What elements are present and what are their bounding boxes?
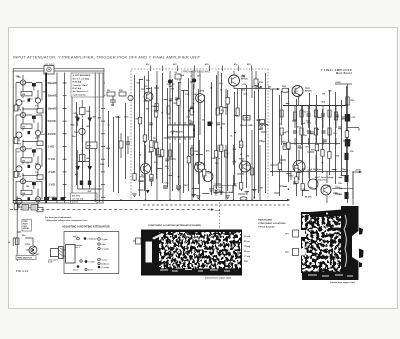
component box B1 <box>22 205 29 211</box>
svg-text:For front panel adjustment: For front panel adjustment <box>45 216 72 219</box>
svg-text:6V8: 6V8 <box>247 64 250 66</box>
diode D7 <box>202 120 212 127</box>
capacitor C18 <box>345 175 349 182</box>
resistor R29 <box>334 112 337 120</box>
wire switch column a <box>56 73 58 204</box>
wire r12 <box>121 133 128 158</box>
svg-text:TR: TR <box>141 175 144 177</box>
svg-text:22n: 22n <box>240 145 244 147</box>
diode Da4 <box>32 182 36 185</box>
svg-text:R2 set: R2 set <box>244 240 250 243</box>
capacitor C13 <box>307 131 311 133</box>
top tick labels <box>146 63 250 66</box>
svg-text:BL239: BL239 <box>305 197 312 199</box>
bus junction rects <box>44 197 65 201</box>
wire main bottom bus <box>13 200 287 202</box>
oval on bus <box>240 197 247 200</box>
svg-text:C1 adj: C1 adj <box>244 236 250 238</box>
trimmer Tb1 <box>37 109 43 114</box>
svg-text:1M: 1M <box>22 94 25 96</box>
svg-text:100n: 100n <box>124 117 130 119</box>
svg-text:Y Final Amplifier: Y Final Amplifier <box>258 225 275 228</box>
junction channel 3 <box>22 175 23 176</box>
wire hv column <box>347 84 349 203</box>
diode Db1 <box>28 99 31 102</box>
resistor R22 <box>246 165 254 175</box>
resistor R27 <box>314 110 317 117</box>
scattered capacitors <box>149 98 345 186</box>
resistor R17b <box>254 71 264 90</box>
transistor TRb1 <box>16 100 22 106</box>
svg-text:TR: TR <box>322 93 325 95</box>
adjust screws <box>77 237 101 270</box>
resistor R24 <box>280 110 283 117</box>
svg-text:TR: TR <box>215 163 218 165</box>
transistor TR12f <box>288 161 305 178</box>
capacitor C7 <box>190 71 196 89</box>
capacitor C12 <box>293 131 297 133</box>
switch position labels <box>48 81 58 199</box>
pcb test point TP1 <box>285 230 299 237</box>
capacitor C17 <box>345 153 349 160</box>
svg-text:Main Board: Main Board <box>336 72 352 75</box>
svg-text:Set Square to 1: Set Square to 1 <box>73 90 90 93</box>
resistor R10 <box>119 90 126 96</box>
svg-text:50mV/D: 50mV/D <box>48 81 58 85</box>
wire final verticals <box>282 91 337 145</box>
wiring mesh final amp <box>273 86 347 196</box>
svg-text:10mV/D: 10mV/D <box>48 106 58 110</box>
diode Db3 <box>28 165 31 168</box>
arrow bus end <box>287 199 291 201</box>
label box trig out <box>16 256 36 260</box>
svg-text:C comp: C comp <box>102 248 110 250</box>
svg-text:x balance: x balance <box>88 238 98 240</box>
diode D6 <box>88 166 93 171</box>
wiring mesh mid column <box>77 102 126 193</box>
svg-text:0.15mA level: 0.15mA level <box>311 168 323 171</box>
adjust box <box>64 232 119 274</box>
svg-text:100n: 100n <box>115 117 121 119</box>
svg-text:COMPONENT LOCATIONS (ATTENUATO: COMPONENT LOCATIONS (ATTENUATOR BOARD) <box>148 224 201 227</box>
wire top bus attenuator <box>13 70 104 72</box>
diode Da1 <box>32 83 36 86</box>
svg-text:R.M. Adj: R.M. Adj <box>73 81 82 84</box>
attenuator channel 4 group <box>14 174 43 212</box>
junction channel 1 <box>22 108 23 109</box>
label main board <box>258 219 286 229</box>
capacitor C3 <box>110 96 116 106</box>
transistor TRb3 <box>16 166 22 172</box>
wire switch column b <box>64 73 66 204</box>
ground symbols <box>132 188 256 198</box>
svg-text:22n: 22n <box>165 166 169 168</box>
resistor R18 <box>156 148 159 155</box>
svg-text:C trim: C trim <box>102 258 108 261</box>
resistor R17 <box>236 108 239 116</box>
svg-text:knob: knob <box>48 262 54 264</box>
resistor R16 <box>216 108 225 115</box>
svg-text:balance: balance <box>102 263 110 265</box>
svg-text:COMPONENT LOCATIONS: COMPONENT LOCATIONS <box>258 222 286 225</box>
svg-text:100n: 100n <box>211 158 217 160</box>
trimmer Tb4 <box>37 207 43 212</box>
resistor R34 <box>328 128 331 135</box>
resistor R7 <box>80 100 92 118</box>
component box PR1 <box>86 142 97 149</box>
capacitor C8 <box>163 186 168 188</box>
arrow input final <box>268 86 280 91</box>
svg-text:FIG 4.10: FIG 4.10 <box>16 270 29 273</box>
capacitor C11 <box>321 114 325 116</box>
svg-text:TR: TR <box>153 138 156 140</box>
svg-text:C5 adj: C5 adj <box>244 246 250 248</box>
transistor TRa2 <box>20 112 25 117</box>
transistor TRa1 <box>20 80 25 85</box>
note box trig <box>22 220 32 232</box>
top ticks preamp <box>151 66 252 72</box>
transistor TR9 <box>229 75 249 86</box>
resistor Ra3 <box>21 158 32 162</box>
svg-text:2mV/D: 2mV/D <box>48 132 56 136</box>
resistor R32 <box>300 128 303 135</box>
resistor R26 <box>300 110 303 117</box>
wire 140V rail <box>335 81 352 84</box>
svg-text:trim: trim <box>102 243 106 246</box>
resistor R13 <box>151 104 158 111</box>
svg-text:47k TP2: 47k TP2 <box>72 195 81 198</box>
svg-text:47p: 47p <box>111 104 115 107</box>
svg-text:Y PREAMPLIFIER BOARD: Y PREAMPLIFIER BOARD <box>181 71 210 74</box>
wire trig vertical <box>17 196 22 261</box>
resistor R11 <box>80 155 92 162</box>
resistor R12 <box>119 141 123 148</box>
component box X1 <box>175 72 182 79</box>
transistor TR12p <box>239 159 251 173</box>
svg-text:.1 V/D: .1 V/D <box>48 183 55 187</box>
svg-text:1M: 1M <box>22 193 25 195</box>
capacitor Ca1 <box>35 98 40 103</box>
wire delay cable c <box>102 73 104 203</box>
resistor R25 <box>293 112 296 120</box>
capacitor C6 <box>168 71 172 90</box>
pcb main board <box>301 206 364 280</box>
resistor R9 <box>107 90 115 96</box>
wire channel 2 <box>16 108 42 142</box>
box gain stabilizer <box>214 186 233 194</box>
resistor R28 <box>328 110 331 117</box>
transistor TR6 <box>128 95 133 100</box>
arrow trig final <box>270 164 282 166</box>
wire channel 3 <box>16 141 42 175</box>
svg-text:to att: to att <box>215 209 220 212</box>
svg-text:Counter 10mV: Counter 10mV <box>73 84 88 87</box>
pcb attenuator board <box>141 230 242 276</box>
capacitor C10 <box>307 114 311 116</box>
svg-text:+140V: +140V <box>335 81 342 84</box>
svg-text:C gain: C gain <box>102 239 109 241</box>
junction channel 4 <box>22 207 23 208</box>
svg-text:MAIN BOARD: MAIN BOARD <box>258 219 273 222</box>
pcb test point TP2 <box>285 249 299 256</box>
svg-text:TR: TR <box>168 118 171 120</box>
capacitor Ca2 <box>35 130 40 135</box>
arrow dashed low <box>211 208 214 210</box>
capacitor C9 <box>176 186 181 188</box>
component box B2 <box>31 205 38 211</box>
value labels layer <box>16 74 355 200</box>
pcb right labels <box>244 236 250 263</box>
paper speckle <box>12 50 394 295</box>
diode D6c <box>88 181 91 186</box>
wire mid line final <box>270 171 348 173</box>
input socket SK1 <box>44 64 56 74</box>
IC1 delay driver <box>168 122 195 140</box>
resistor R23 <box>282 86 289 92</box>
svg-text:R9 set: R9 set <box>244 250 250 253</box>
resistor R30 <box>346 97 355 105</box>
wire channel 4 <box>16 174 42 208</box>
resistor Rb1 <box>14 105 18 111</box>
transistor TR13p <box>203 172 213 182</box>
svg-text:C7 adj: C7 adj <box>244 256 250 258</box>
resistor Ra1 <box>21 92 32 96</box>
component M1 <box>243 116 250 121</box>
capacitor C16 <box>345 139 350 147</box>
svg-text:BF259: BF259 <box>305 91 312 93</box>
svg-text:R.M. Adj: R.M. Adj <box>73 87 82 90</box>
svg-text:33p: 33p <box>210 122 214 124</box>
transistor TR15 <box>25 244 37 254</box>
transistor TR10 <box>139 164 151 179</box>
potentiometer shaft <box>48 241 75 265</box>
svg-text:C comp: C comp <box>102 267 110 269</box>
switch contacts <box>63 83 67 197</box>
transistor TR13 <box>305 179 318 199</box>
wire preamp verticals <box>149 71 253 140</box>
attenuator channel 2 group <box>14 108 43 146</box>
trimmer Tb3 <box>37 175 43 180</box>
capacitor C19 <box>345 192 349 199</box>
svg-text:22n: 22n <box>343 141 347 143</box>
svg-text:6V8: 6V8 <box>205 64 208 66</box>
svg-text:level: level <box>88 269 93 271</box>
arrow hv out <box>353 170 362 206</box>
diode Da3 <box>32 149 36 152</box>
transistor TRb2 <box>16 132 22 138</box>
transistor TR14 <box>321 185 341 195</box>
diode D8 <box>146 190 150 194</box>
svg-text:47p: 47p <box>348 139 352 142</box>
capacitor Ca4 <box>35 197 40 202</box>
resistor R33 <box>314 128 317 135</box>
svg-text:S. ATT BALANCE: S. ATT BALANCE <box>73 74 92 77</box>
diode D5 <box>76 166 81 171</box>
wire mid cluster <box>78 135 102 189</box>
attenuator channel 1 group <box>14 75 43 113</box>
resistor R21 <box>225 150 228 157</box>
svg-text:mark balance: mark balance <box>73 94 88 96</box>
resistor Rb4 <box>14 204 18 210</box>
inductor L1 <box>259 120 268 127</box>
svg-text:47p: 47p <box>197 74 201 77</box>
wire eht line <box>332 171 353 199</box>
resistor Rb3 <box>14 171 18 177</box>
svg-text:(viewed from copper side): (viewed from copper side) <box>330 282 355 284</box>
connector stubs <box>138 80 345 195</box>
wire final bus <box>283 105 348 107</box>
svg-text:100k: 100k <box>43 91 49 93</box>
wire hv branch <box>348 128 360 131</box>
notes above attenuator box <box>45 216 88 222</box>
svg-text:E.H.T. Drive Voltage: E.H.T. Drive Voltage <box>315 176 335 179</box>
note box <box>71 73 104 97</box>
svg-text:33p: 33p <box>261 141 265 143</box>
switch bank bar S1 <box>45 73 47 204</box>
wire delay cable b <box>98 73 100 203</box>
scattered resistors <box>203 169 206 176</box>
capacitor C14 <box>322 131 326 133</box>
transistor TRa3 <box>20 146 25 151</box>
label trig values <box>8 235 40 256</box>
transistor TR11 <box>292 86 312 97</box>
svg-text:preset: preset <box>72 201 79 204</box>
transistor TR11p <box>195 162 205 172</box>
svg-text:1M: 1M <box>22 160 25 162</box>
svg-text:33p: 33p <box>72 136 76 138</box>
svg-text:6V8: 6V8 <box>173 64 176 66</box>
svg-text:TRIG OUTPUT: TRIG OUTPUT <box>17 258 32 260</box>
diode Db2 <box>28 131 31 134</box>
capacitor C15 <box>345 114 356 122</box>
svg-text:20mV/D: 20mV/D <box>48 94 58 98</box>
transistor TRa4 <box>20 179 25 184</box>
svg-text:.2 V/D: .2 V/D <box>48 170 55 174</box>
pcb connector stub <box>133 238 141 244</box>
transistor TRb4 <box>16 198 22 204</box>
resistor Ra4 <box>21 190 32 194</box>
svg-text:.5 V/D: .5 V/D <box>48 157 55 161</box>
diode D5a <box>76 114 81 126</box>
wire left rail <box>12 71 14 203</box>
capacitor C5 <box>126 142 130 144</box>
svg-text:1M: 1M <box>22 127 25 129</box>
resistor R37 <box>16 238 20 245</box>
svg-text:INPUT ATTENUATOR, Y PREAMPLIFI: INPUT ATTENUATOR, Y PREAMPLIFIER, TRIGGE… <box>13 55 201 60</box>
svg-text:x shift: x shift <box>89 260 95 263</box>
svg-text:* differential voltage from co: * differential voltage from comparator l… <box>45 219 88 222</box>
svg-text:LEVEL: LEVEL <box>23 228 30 230</box>
resistor R14 <box>167 106 170 114</box>
wire dashed vertical drop <box>219 202 221 229</box>
resistor Ra2 <box>21 124 32 128</box>
attenuator channel 3 group <box>14 141 43 179</box>
wire final lower verticals <box>282 150 328 203</box>
svg-text:+875V: +875V <box>355 170 362 172</box>
transistor TR5 <box>74 128 85 134</box>
svg-text:1 V/D: 1 V/D <box>48 145 55 149</box>
wire final row line <box>283 143 340 145</box>
adjust labels <box>73 236 110 271</box>
diode D6b <box>80 181 83 186</box>
wire dashed mid <box>143 204 290 206</box>
svg-text:TR: TR <box>172 84 175 86</box>
diode Db4 <box>28 197 31 200</box>
svg-text:1M: 1M <box>26 186 29 188</box>
label final amp <box>321 69 352 75</box>
resistor R31 <box>280 128 283 135</box>
wire channel 1 <box>16 75 42 109</box>
transistor TR8 <box>196 91 205 103</box>
preset box bottom <box>71 193 98 204</box>
svg-text:33p: 33p <box>303 135 307 137</box>
wiring mesh preamp <box>135 73 266 199</box>
resistor R36 <box>283 144 290 150</box>
wire trig links <box>13 232 33 260</box>
board boundary preamp dashed <box>131 69 268 199</box>
wire preamp out <box>234 88 270 90</box>
resistor Rb2 <box>14 138 18 144</box>
resistor R20 <box>191 148 200 155</box>
wire preamp lower verticals <box>146 130 261 200</box>
svg-text:5mV/D: 5mV/D <box>48 119 56 123</box>
diode D5b <box>88 114 93 126</box>
transistor TR7 <box>141 89 153 101</box>
trimmer Tb2 <box>37 141 43 146</box>
svg-text:BF199: BF199 <box>241 79 248 81</box>
wire attenuator outer top <box>13 68 104 72</box>
diode Da2 <box>32 116 36 119</box>
junction channel 2 <box>22 141 23 142</box>
wire bottom attenuator <box>13 202 104 204</box>
wire delay cable a <box>94 73 96 203</box>
svg-text:ADJUSTING A ROTATING ATTENUATO: ADJUSTING A ROTATING ATTENUATOR <box>62 226 110 229</box>
contacts right bank <box>101 83 105 197</box>
svg-text:SK1 INPUT: SK1 INPUT <box>45 64 56 66</box>
wire switch column c <box>71 73 73 204</box>
resistor R19 <box>169 150 172 157</box>
junction dots bus <box>94 199 252 201</box>
wire dashed low <box>10 209 211 211</box>
label EHT <box>311 168 335 182</box>
junction dots scattered <box>139 87 342 198</box>
resistor R15 <box>190 108 193 115</box>
capacitor Ca3 <box>35 164 40 169</box>
svg-text:(viewed from copper side): (viewed from copper side) <box>205 277 231 280</box>
svg-text:Set Y: 1 mV (db): Set Y: 1 mV (db) <box>73 77 90 80</box>
